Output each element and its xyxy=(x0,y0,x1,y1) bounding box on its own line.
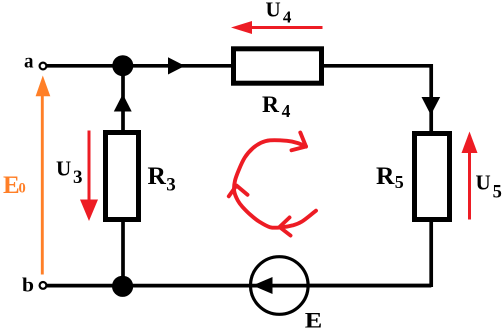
svg-text:R4: R4 xyxy=(262,92,291,121)
svg-text:U4: U4 xyxy=(266,0,292,27)
svg-text:b: b xyxy=(22,274,34,296)
svg-text:U3: U3 xyxy=(56,157,82,188)
svg-text:a: a xyxy=(24,51,34,73)
svg-text:R3: R3 xyxy=(148,161,176,195)
svg-text:R5: R5 xyxy=(376,161,404,192)
svg-text:U5: U5 xyxy=(476,171,502,203)
svg-text:E0: E0 xyxy=(3,172,26,199)
svg-text:E: E xyxy=(305,308,323,333)
